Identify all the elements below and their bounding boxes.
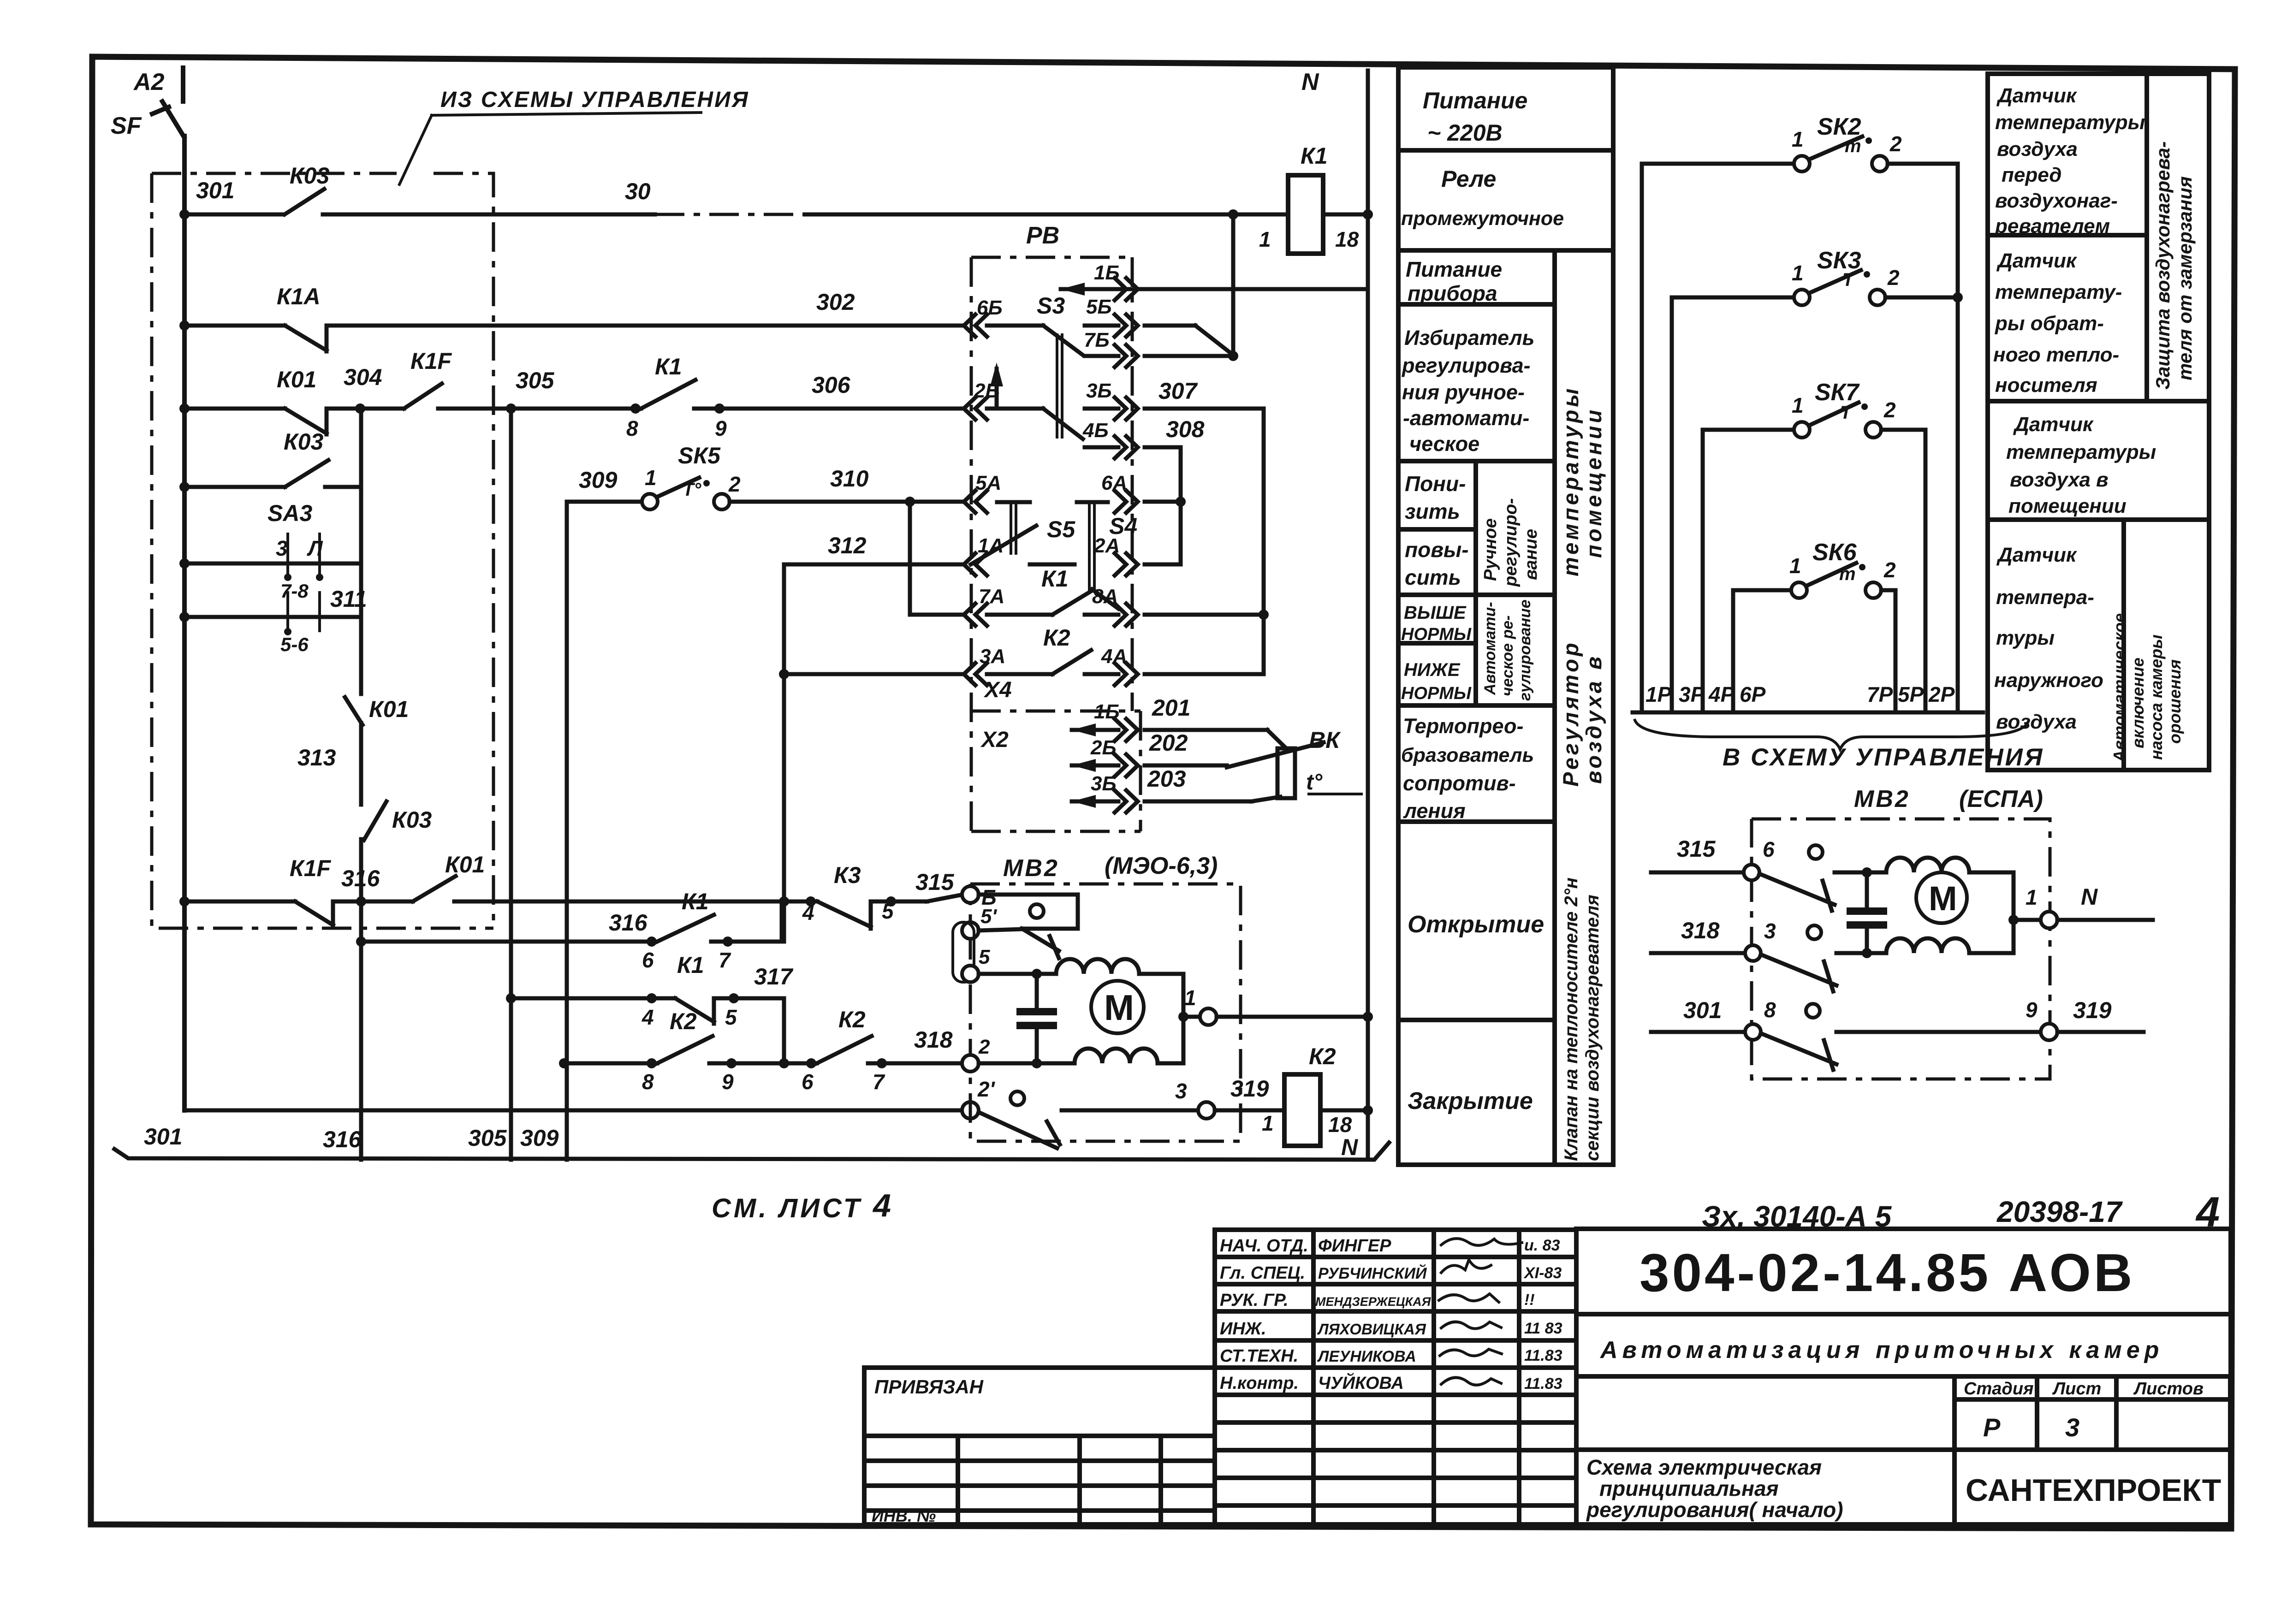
svg-text:Термопрео-: Термопрео- [1403, 714, 1524, 738]
svg-text:К01: К01 [277, 367, 316, 392]
svg-text:Датчик: Датчик [1996, 544, 2078, 566]
svg-text:315: 315 [1677, 836, 1716, 862]
svg-text:зить: зить [1405, 499, 1460, 523]
svg-text:2Б: 2Б [1090, 736, 1117, 759]
svg-text:помещении: помещении [1581, 407, 1606, 558]
svg-text:К01: К01 [445, 852, 485, 877]
svg-text:SА3: SА3 [267, 500, 312, 526]
svg-text:2: 2 [728, 472, 741, 496]
svg-text:воздуха в: воздуха в [2010, 468, 2109, 491]
svg-text:7А: 7А [979, 585, 1004, 608]
svg-text:3Б: 3Б [1086, 379, 1112, 402]
svg-text:3: 3 [1175, 1079, 1187, 1103]
svg-text:307: 307 [1158, 378, 1198, 404]
svg-text:2': 2' [977, 1077, 996, 1101]
svg-text:ЛЕУНИКОВА: ЛЕУНИКОВА [1317, 1348, 1416, 1365]
svg-text:301: 301 [196, 178, 234, 203]
svg-text:т: т [1845, 136, 1861, 156]
svg-text:гулирование: гулирование [1516, 599, 1534, 701]
svg-text:SF: SF [111, 113, 142, 139]
svg-text:РВ: РВ [1026, 222, 1059, 249]
svg-text:S5: S5 [1047, 516, 1075, 542]
svg-text:ВЫШЕ: ВЫШЕ [1404, 603, 1467, 623]
svg-text:1Б: 1Б [1094, 261, 1120, 284]
svg-text:203: 203 [1147, 766, 1186, 792]
svg-text:202: 202 [1149, 730, 1188, 756]
svg-text:Р: Р [1983, 1413, 2001, 1442]
svg-text:20398-17: 20398-17 [1996, 1195, 2123, 1228]
svg-text:САНТЕХПРОЕКТ: САНТЕХПРОЕКТ [1966, 1473, 2221, 1508]
svg-text:наружного: наружного [1994, 669, 2103, 692]
svg-text:Пони-: Пони- [1405, 472, 1466, 496]
svg-text:3А: 3А [980, 645, 1005, 668]
svg-text:318: 318 [1681, 918, 1720, 943]
svg-text:5': 5' [980, 905, 997, 928]
svg-text:Реле: Реле [1441, 166, 1496, 192]
svg-text:повы-: повы- [1405, 538, 1469, 562]
svg-text:вание: вание [1521, 529, 1541, 580]
svg-text:Датчик: Датчик [1996, 249, 2078, 272]
svg-text:К03: К03 [290, 163, 330, 189]
svg-text:Т°: Т° [683, 480, 701, 500]
svg-text:310: 310 [830, 466, 869, 492]
svg-text:теля от замерзания: теля от замерзания [2174, 176, 2196, 380]
svg-text:1: 1 [1789, 554, 1801, 578]
svg-text:Х2: Х2 [980, 728, 1009, 752]
svg-text:S3: S3 [1037, 293, 1065, 319]
svg-text:Лист: Лист [2052, 1379, 2101, 1399]
svg-text:ческое ре-: ческое ре- [1499, 616, 1516, 696]
svg-text:5: 5 [979, 946, 990, 968]
svg-text:темпера-: темпера- [1996, 586, 2094, 609]
svg-text:К2: К2 [838, 1007, 866, 1032]
svg-text:ЧУЙКОВА: ЧУЙКОВА [1318, 1372, 1404, 1393]
svg-text:304-02-14.85 АОВ: 304-02-14.85 АОВ [1640, 1243, 2135, 1303]
svg-text:СТ.ТЕХН.: СТ.ТЕХН. [1220, 1346, 1298, 1366]
svg-text:8: 8 [642, 1070, 654, 1094]
svg-text:7: 7 [873, 1070, 885, 1094]
svg-text:К2: К2 [1043, 625, 1070, 651]
svg-text:319: 319 [1230, 1076, 1269, 1102]
svg-text:11.83: 11.83 [1524, 1375, 1562, 1393]
svg-text:5А: 5А [975, 472, 1001, 494]
svg-text:302: 302 [816, 289, 855, 315]
svg-text:312: 312 [828, 533, 867, 558]
svg-text:Автоматическое: Автоматическое [2110, 613, 2129, 763]
svg-text:Л: Л [307, 536, 323, 560]
svg-text:316: 316 [609, 910, 648, 936]
svg-text:М: М [1929, 879, 1957, 918]
svg-text:температуры: температуры [1995, 111, 2145, 134]
svg-text:306: 306 [812, 372, 851, 398]
svg-text:SК3: SК3 [1817, 247, 1861, 274]
svg-text:К03: К03 [392, 807, 432, 833]
svg-text:Т: Т [1842, 270, 1855, 290]
svg-text:SК6: SК6 [1812, 539, 1857, 566]
svg-text:сопротив-: сопротив- [1403, 771, 1516, 795]
svg-text:30: 30 [625, 178, 651, 204]
svg-text:1: 1 [1792, 393, 1804, 417]
svg-text:Х4: Х4 [983, 678, 1012, 702]
svg-text:2: 2 [1883, 398, 1896, 422]
svg-text:Открытие: Открытие [1408, 911, 1544, 938]
svg-text:принципиальная: принципиальная [1599, 1476, 1779, 1500]
svg-text:304: 304 [344, 364, 382, 390]
svg-text:ры обрат-: ры обрат- [1995, 312, 2104, 335]
svg-text:ния ручное-: ния ручное- [1402, 380, 1525, 404]
svg-text:309: 309 [520, 1125, 559, 1151]
svg-text:К1: К1 [1301, 143, 1328, 169]
svg-text:8: 8 [1764, 998, 1776, 1022]
svg-text:6Б: 6Б [977, 296, 1003, 319]
svg-text:Стадия: Стадия [1964, 1379, 2033, 1399]
svg-text:сить: сить [1405, 565, 1461, 589]
svg-text:1Р: 1Р [1645, 682, 1672, 706]
svg-text:НОРМЫ: НОРМЫ [1401, 625, 1472, 644]
svg-text:температуры: температуры [2006, 441, 2156, 463]
svg-text:6: 6 [1763, 837, 1775, 861]
svg-text:Питание: Питание [1406, 257, 1502, 281]
svg-text:перед: перед [2002, 164, 2061, 186]
svg-text:309: 309 [579, 467, 618, 493]
svg-text:К1: К1 [677, 952, 704, 978]
svg-text:3Б: 3Б [1091, 772, 1117, 795]
svg-text:7Б: 7Б [1084, 329, 1110, 351]
svg-text:ческое: ческое [1409, 432, 1479, 456]
svg-text:К1: К1 [1041, 566, 1069, 592]
svg-text:1: 1 [2026, 885, 2038, 909]
svg-text:18: 18 [1328, 1113, 1352, 1137]
svg-text:5Б: 5Б [1086, 296, 1112, 318]
svg-text:6: 6 [802, 1070, 814, 1094]
svg-text:воздуха: воздуха [1996, 711, 2077, 733]
svg-text:Схема электрическая: Схема электрическая [1586, 1455, 1822, 1479]
svg-text:К01: К01 [369, 696, 409, 722]
svg-text:К1F: К1F [410, 348, 452, 374]
svg-text:Гл. СПЕЦ.: Гл. СПЕЦ. [1220, 1263, 1305, 1283]
svg-text:6Р: 6Р [1740, 682, 1766, 706]
svg-text:315: 315 [915, 869, 955, 895]
svg-text:Автоматизация приточных каме: Автоматизация приточных камер [1599, 1337, 2163, 1363]
svg-text:6: 6 [642, 948, 654, 972]
svg-text:2Р: 2Р [1928, 682, 1955, 706]
svg-text:5: 5 [725, 1005, 737, 1029]
svg-text:регулирова-: регулирова- [1402, 354, 1531, 377]
svg-text:(ЕСПА): (ЕСПА) [1959, 786, 2043, 812]
svg-text:ления: ления [1403, 799, 1466, 823]
svg-text:К2: К2 [670, 1008, 697, 1034]
svg-text:Н.контр.: Н.контр. [1220, 1374, 1299, 1393]
svg-text:т: т [1839, 564, 1856, 584]
svg-text:РУК. ГР.: РУК. ГР. [1220, 1291, 1289, 1310]
svg-text:и. 83: и. 83 [1524, 1237, 1560, 1254]
svg-text:18: 18 [1335, 227, 1359, 251]
svg-text:!!: !! [1524, 1291, 1535, 1309]
svg-text:Автомати-: Автомати- [1481, 602, 1499, 695]
svg-text:воздуха: воздуха [1997, 138, 2078, 160]
svg-text:(МЭО-6,3): (МЭО-6,3) [1105, 853, 1218, 879]
svg-text:301: 301 [1683, 997, 1722, 1023]
svg-text:2: 2 [1889, 132, 1902, 156]
svg-text:4: 4 [872, 1187, 891, 1223]
svg-text:1: 1 [1184, 986, 1196, 1010]
svg-text:воздухонаг-: воздухонаг- [1995, 190, 2118, 212]
svg-text:9: 9 [2026, 998, 2038, 1022]
svg-text:2: 2 [1883, 558, 1896, 582]
svg-text:SК7: SК7 [1815, 379, 1860, 406]
svg-text:туры: туры [1996, 627, 2055, 649]
svg-text:t°: t° [1306, 770, 1323, 794]
svg-text:промежуточное: промежуточное [1401, 207, 1564, 230]
svg-text:К1А: К1А [277, 284, 321, 309]
svg-text:301: 301 [144, 1124, 182, 1150]
svg-text:305: 305 [468, 1125, 507, 1151]
svg-text:РУБЧИНСКИЙ: РУБЧИНСКИЙ [1318, 1264, 1427, 1282]
svg-text:носителя: носителя [1995, 374, 2097, 397]
svg-text:температу-: температу- [1995, 281, 2122, 303]
svg-text:ПРИВЯЗАН: ПРИВЯЗАН [874, 1376, 984, 1398]
svg-text:ЛЯХОВИЦКАЯ: ЛЯХОВИЦКАЯ [1317, 1321, 1426, 1338]
svg-text:1А: 1А [978, 534, 1004, 557]
svg-text:7Р: 7Р [1867, 682, 1893, 706]
svg-text:1: 1 [1792, 261, 1804, 285]
svg-text:насоса камеры: насоса камеры [2147, 634, 2166, 760]
svg-text:помещении: помещении [2008, 495, 2127, 517]
svg-text:316: 316 [323, 1126, 362, 1152]
svg-text:1: 1 [1259, 227, 1271, 251]
svg-text:4: 4 [2195, 1189, 2220, 1236]
svg-text:МВ2: МВ2 [1003, 855, 1059, 882]
svg-text:Зх. 30140-А 5: Зх. 30140-А 5 [1702, 1200, 1892, 1233]
svg-text:включение: включение [2128, 658, 2147, 748]
svg-text:Датчик: Датчик [2013, 413, 2094, 436]
svg-text:К1: К1 [682, 889, 709, 914]
svg-text:Избиратель: Избиратель [1404, 326, 1534, 350]
svg-text:316: 316 [341, 865, 380, 891]
svg-text:1Б: 1Б [1094, 700, 1120, 723]
svg-text:Т: Т [1840, 403, 1853, 423]
svg-text:A2: A2 [133, 69, 165, 95]
svg-text:секции воздухонагревателя: секции воздухонагревателя [1582, 895, 1603, 1161]
svg-text:1: 1 [645, 466, 657, 490]
svg-text:прибора: прибора [1408, 281, 1497, 305]
svg-text:N: N [2081, 884, 2098, 910]
svg-text:ФИНГЕР: ФИНГЕР [1318, 1236, 1391, 1256]
svg-text:СМ. ЛИСТ: СМ. ЛИСТ [712, 1193, 862, 1223]
svg-text:4А: 4А [1101, 645, 1127, 668]
svg-text:5-6: 5-6 [280, 634, 309, 655]
svg-text:3: 3 [2065, 1413, 2079, 1442]
svg-text:температуры: температуры [1558, 386, 1583, 576]
svg-text:~ 220В: ~ 220В [1427, 120, 1503, 146]
svg-text:7-8: 7-8 [280, 580, 309, 602]
svg-text:МВ2: МВ2 [1854, 786, 1910, 812]
svg-text:регулирования( начало): регулирования( начало) [1586, 1498, 1843, 1522]
svg-text:Листов: Листов [2133, 1379, 2204, 1399]
svg-text:5Р: 5Р [1898, 682, 1924, 706]
svg-text:318: 318 [914, 1027, 953, 1053]
svg-text:НАЧ. ОТД.: НАЧ. ОТД. [1220, 1236, 1308, 1256]
svg-text:SК5: SК5 [678, 443, 721, 468]
svg-text:8: 8 [626, 416, 638, 440]
svg-text:313: 313 [297, 745, 336, 771]
svg-text:8А: 8А [1092, 585, 1118, 608]
svg-text:К1F: К1F [290, 855, 332, 881]
svg-text:7: 7 [719, 948, 731, 972]
svg-text:11 83: 11 83 [1524, 1320, 1562, 1337]
svg-text:-автомати-: -автомати- [1403, 406, 1529, 430]
svg-text:201: 201 [1152, 695, 1190, 721]
svg-text:НОРМЫ: НОРМЫ [1401, 684, 1472, 703]
svg-text:ИНВ. №: ИНВ. № [872, 1506, 936, 1525]
svg-text:Закрытие: Закрытие [1408, 1088, 1533, 1114]
svg-text:ИЗ СХЕМЫ УПРАВЛЕНИЯ: ИЗ СХЕМЫ УПРАВЛЕНИЯ [440, 88, 749, 112]
svg-text:Питание: Питание [1423, 88, 1527, 113]
svg-text:2: 2 [978, 1036, 990, 1058]
svg-text:НИЖЕ: НИЖЕ [1404, 660, 1461, 680]
svg-text:3: 3 [1764, 919, 1776, 943]
svg-text:бразователь: бразователь [1401, 744, 1534, 766]
svg-text:N: N [1301, 69, 1319, 95]
svg-text:МЕНДЗЕРЖЕЦКАЯ: МЕНДЗЕРЖЕЦКАЯ [1315, 1295, 1432, 1309]
svg-text:2А: 2А [1093, 534, 1120, 557]
svg-text:ного тепло-: ного тепло- [1993, 344, 2119, 366]
svg-text:К2: К2 [1309, 1043, 1336, 1069]
svg-text:XI-83: XI-83 [1523, 1264, 1562, 1282]
svg-text:1: 1 [1792, 127, 1804, 151]
svg-text:воздуха в: воздуха в [1581, 654, 1606, 784]
svg-text:9: 9 [722, 1070, 734, 1094]
svg-text:4: 4 [642, 1005, 654, 1029]
svg-text:К3: К3 [834, 862, 861, 888]
svg-text:3: 3 [276, 536, 288, 560]
svg-text:В СХЕМУ УПРАВЛЕНИЯ: В СХЕМУ УПРАВЛЕНИЯ [1723, 744, 2044, 771]
svg-text:308: 308 [1166, 416, 1205, 442]
svg-text:305: 305 [516, 367, 555, 393]
svg-text:ВК: ВК [1309, 727, 1341, 753]
svg-text:регулиро-: регулиро- [1501, 498, 1521, 587]
svg-text:6А: 6А [1101, 472, 1127, 494]
svg-text:М: М [1104, 987, 1134, 1028]
svg-text:2: 2 [1887, 266, 1900, 290]
svg-text:317: 317 [754, 964, 794, 990]
svg-text:9: 9 [715, 416, 727, 440]
svg-text:11.83: 11.83 [1524, 1347, 1562, 1364]
svg-text:ИНЖ.: ИНЖ. [1220, 1319, 1266, 1339]
svg-text:319: 319 [2073, 997, 2112, 1023]
svg-text:4Р: 4Р [1708, 682, 1735, 706]
svg-text:Регулятор: Регулятор [1558, 640, 1583, 787]
svg-text:Клапан на теплоносителе 2°н: Клапан на теплоносителе 2°н [1561, 877, 1581, 1161]
svg-text:1: 1 [1262, 1111, 1274, 1135]
svg-text:Датчик: Датчик [1996, 84, 2078, 107]
svg-text:орошения: орошения [2165, 659, 2184, 744]
svg-text:Защита воздухонагрева-: Защита воздухонагрева- [2152, 141, 2174, 390]
svg-text:Ручное: Ручное [1481, 518, 1500, 581]
svg-text:К03: К03 [284, 429, 324, 455]
svg-text:4Б: 4Б [1082, 419, 1109, 442]
svg-text:3Р: 3Р [1679, 682, 1705, 706]
svg-text:К1: К1 [655, 354, 682, 379]
svg-text:N: N [1341, 1134, 1358, 1160]
